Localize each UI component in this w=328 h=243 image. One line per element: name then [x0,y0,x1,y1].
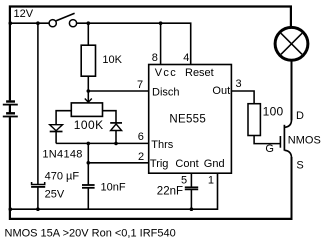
node: junction dot D2 on Thrs wire [114,142,118,146]
svg-text:25V: 25V [45,188,65,200]
svg-text:6: 6 [138,131,144,143]
svg-text:Trig: Trig [150,158,169,170]
capacitor 22nF top plate [185,186,198,188]
resistor 10K [81,45,95,76]
svg-text:NMOS 15A >20V Ron <0,1 IRF540: NMOS 15A >20V Ron <0,1 IRF540 [5,227,176,239]
node: junction dot 470uF on ground [36,207,40,211]
svg-text:4: 4 [183,52,189,64]
wire: pin 8 to rail [160,23,162,64]
svg-text:100K: 100K [74,118,104,132]
battery B1 cell1 short plate [6,100,15,102]
svg-text:D: D [296,110,304,122]
wire: diode D1 to Thrs wire [55,132,57,144]
node: junction dot ground at border [9,207,13,211]
wire: rail to capacitor 470uF [37,23,39,184]
node: junction dot pin7/wiper [87,89,91,93]
wire: 10nF to ground rail [87,188,89,209]
capacitor 10nF top plate [82,184,95,186]
potentiometer 100K body [71,103,102,117]
svg-text:1: 1 [208,174,214,186]
wire: left border below battery and bottom border to NMOS source [10,117,293,219]
svg-text:2: 2 [138,151,144,163]
diode D2 cathode bar [110,122,122,124]
svg-text:22nF: 22nF [157,186,183,198]
node: junction dot 22nF on ground [190,207,194,211]
battery inter-cell wire [9,106,11,113]
node: junction dot pin8 tap on rail [159,21,163,25]
battery B1 cell2 long plate [3,116,18,118]
wire: resistor 100 to gate [254,136,280,144]
node: junction dot 10K tap on rail [87,21,91,25]
svg-text:Reset: Reset [185,67,214,79]
svg-text:Cont: Cont [175,158,198,170]
lamp LA1 [275,27,308,60]
wire: top border +12V rail from battery to lamp [10,7,291,101]
svg-text:Vcc: Vcc [155,67,177,79]
svg-text:Disch: Disch [152,86,180,98]
svg-text:470 µF: 470 µF [45,171,80,183]
transistor Q1 gate bar [279,136,281,148]
capacitor 10nF bottom plate [82,187,95,189]
capacitor 470uF bottom plate [31,186,45,188]
transistor Q1 source arc [285,150,292,158]
wire: pin 7 Disch [88,90,148,92]
wire: rail to resistor 10K [87,23,89,45]
svg-text:Thrs: Thrs [151,139,174,151]
wire: NMOS source to bottom border [291,157,293,219]
lamp LA1 cross [281,33,302,54]
wire: 470uF to ground rail [37,187,39,209]
diode D2 1N4148 (pointing up) [111,124,122,131]
wire: pin 3 Out to resistor 100 [231,91,254,104]
svg-text:NMOS: NMOS [288,134,321,146]
wire: pot left end to diode D1 [56,111,71,125]
transistor Q1 channel bar [283,125,285,151]
node: junction dot Thrs/Trig link [87,142,91,146]
svg-text:Gnd: Gnd [204,158,225,170]
capacitor 470uF top cup plate [32,182,45,185]
wire: lamp to NMOS drain [291,60,293,120]
diode D1 cathode bar [50,131,63,133]
wire: diode D2 to Thrs wire [115,131,117,144]
wire: Thrs node down to 10nF [87,143,89,185]
svg-text:5: 5 [181,174,187,186]
switch S1 lever [56,13,74,20]
svg-text:100: 100 [263,105,284,119]
potentiometer wiper arrowhead [85,99,92,103]
wire: pin 2 Trig [88,162,148,164]
node: junction dot rail at border [9,21,13,25]
svg-text:3: 3 [236,78,242,90]
svg-text:8: 8 [152,52,158,64]
switch S1 right contact [69,20,76,27]
svg-text:Out: Out [212,85,230,97]
wire: pot right end to diode D2 [103,111,117,123]
op-amp/timer U1 NE555 body [149,65,232,174]
svg-text:G: G [265,143,274,155]
wire: pin 6 Thrs [56,142,149,144]
svg-text:10K: 10K [102,54,122,66]
diode D1 1N4148 (anode top, pointing down) [50,125,63,131]
svg-text:1N4148: 1N4148 [42,149,82,161]
wire: resistor 10K to pin7 node [87,76,89,91]
svg-text:7: 7 [137,79,143,91]
svg-text:10nF: 10nF [101,182,126,194]
node: junction dot Trig [87,161,91,165]
wire: pin 5 Cont to 22nF [190,173,192,187]
svg-text:S: S [296,160,303,172]
transistor Q1 drain arc [285,120,292,128]
wire: wiper arm of potentiometer [87,91,89,102]
wire: 22nF to ground rail [190,189,192,209]
svg-text:12V: 12V [14,8,34,20]
resistor 100 [248,104,260,136]
capacitor 22nF bottom plate [185,188,198,190]
switch S1 left contact [49,20,56,27]
svg-text:NE555: NE555 [169,114,206,126]
node: junction dot 470uF tap on rail [36,21,40,25]
wire: switch to pin4 of NE555 [77,23,191,64]
battery B1 cell2 short plate [6,112,15,114]
wire: 12V rail to switch [11,22,49,24]
battery B1 cell1 long plate [3,104,18,106]
wire: ground rail and pin 1 riser [10,173,218,209]
